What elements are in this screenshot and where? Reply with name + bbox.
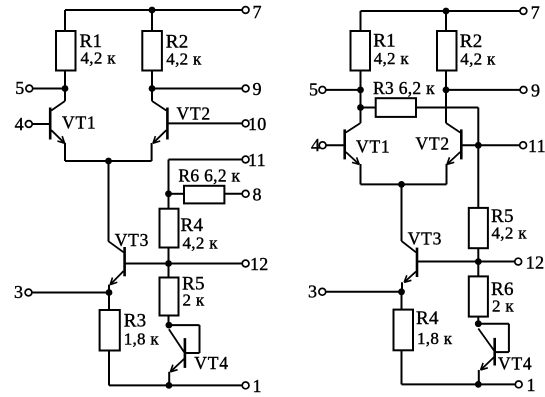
wire: R1 to VT1 collector node [64,71,66,102]
junction: R5/R6/VT3 base/pin 12 (right) [475,258,482,265]
transistor VT3 (right) [402,241,418,282]
svg-text:9: 9 [531,80,540,100]
svg-text:VT2: VT2 [416,134,450,154]
junction: left top rail / R2 [149,7,156,14]
transistor VT1 (right) [345,123,361,164]
resistor R3 (left) body [100,310,120,351]
svg-text:11: 11 [248,150,266,170]
pin 3 terminal (left) [25,289,32,296]
svg-text:1,8 к: 1,8 к [417,329,453,348]
wire: left top rail to pin 7 [65,9,243,11]
wire: VT3 emitter stub (right) [401,282,403,292]
junction: VT1/VT2 emitters common node (right) [398,181,405,188]
wire: rail to R1 (right) [360,11,362,31]
junction: R5 / VT4 collector+base [166,322,173,329]
resistor R3 (right) body [376,98,416,117]
svg-text:2 к: 2 к [183,291,205,310]
svg-text:4,2 к: 4,2 к [460,50,496,69]
svg-text:1,8 к: 1,8 к [124,330,160,349]
svg-text:R6 6,2 к: R6 6,2 к [178,166,240,186]
wire: VT3 base to pin 12 (right) [418,261,515,263]
wire: R6 branch to pin 11 [169,159,243,161]
wire: R4 to R5 [168,248,170,278]
wire: rail to R2 [151,10,153,31]
transistor VT2 (right) [446,123,461,164]
wire: node to R4 (right) [401,292,403,310]
junction: R6 / VT4 collector+base (right) [475,320,482,327]
transistor VT3 (left) [109,241,125,284]
pin 8 terminal (left) [242,190,249,197]
resistor R2 (left) body [142,31,162,71]
pin 1 terminal (right) [515,381,522,388]
wire: R3 to VT2 base branch (crossover) [416,107,478,109]
wire: junction to R6 [169,193,185,195]
wire: VT2 emitter drop (right) [446,164,448,184]
wire: emitters node down to VT3 collector [108,161,110,242]
transistor VT4 (right) [478,329,494,371]
svg-text:1: 1 [527,375,536,395]
pin 3 terminal (right) [319,288,326,295]
svg-text:4,2 к: 4,2 к [374,49,410,68]
svg-text:VT4: VT4 [194,353,228,373]
pin 4 terminal (right) [319,142,326,149]
wire: VT4 base loop right [199,325,201,353]
wire: VT4 base loop bottom (right) [496,351,509,353]
svg-text:5: 5 [309,79,318,99]
wire: VT4 base loop top (right) [478,323,509,325]
wire: VT2 emitter to common node (right) [402,183,447,185]
svg-text:2 к: 2 к [492,297,514,316]
svg-text:3: 3 [308,281,317,301]
junction: right top rail / R2 [443,8,450,15]
wire: VT1 emitter to common node [65,160,109,162]
transistor VT4 (left) [169,329,185,372]
pin 5 terminal (right) [319,87,326,94]
wire: R6 to pin 8 [224,193,242,195]
svg-text:4: 4 [15,114,24,134]
svg-text:12: 12 [250,254,269,274]
wire: node to R3 [108,293,110,311]
wire: VT2 base to pin 11 (right) [462,144,520,146]
junction: bottom rail / VT4 emitter [166,382,173,389]
resistor R5 (left) body [160,278,179,316]
resistor R5 (right) body [469,208,488,248]
junction: R4/R5/VT3 base/pin 12 [165,260,172,267]
junction: R1 bottom / pin 5 / VT1 collector [62,85,69,92]
svg-text:VT2: VT2 [177,104,211,124]
wire: VT4 base loop right (right) [508,324,510,352]
svg-text:10: 10 [248,114,267,134]
wire: VT4 emitter to bottom rail [168,372,170,386]
wire: VT2 base to pin 10 [168,122,242,124]
svg-text:1: 1 [253,376,262,396]
resistor R4 (left) body [160,209,179,248]
wire: emitters node down to VT3 (right) [401,184,403,241]
resistor R6 (left) body [184,186,224,204]
pin 7 terminal (right) [520,8,527,15]
svg-text:3: 3 [14,282,23,302]
resistor R2 (right) body [437,31,457,71]
svg-text:R4: R4 [416,308,439,329]
junction: VT2 base / R3 / R5 branch (right) [475,142,482,149]
svg-text:VT4: VT4 [498,354,532,374]
svg-text:7: 7 [253,2,262,22]
pin 10 terminal (left) [242,120,249,127]
wire: VT1 emitter drop [64,143,66,161]
svg-text:VT3: VT3 [115,230,149,250]
svg-text:R3: R3 [124,311,147,332]
wire: VT4 base loop top [169,324,200,326]
svg-text:5: 5 [15,78,24,98]
svg-text:9: 9 [253,79,262,99]
svg-text:4,2 к: 4,2 к [81,49,117,68]
svg-text:7: 7 [531,3,540,23]
junction: R2 bottom / pin 9 / VT2 collector [149,85,156,92]
resistor R1 (right) body [351,31,371,71]
wire: rail to R2 (right) [445,11,447,31]
wire: R2 to VT2 collector node (right) [445,71,447,124]
pin 11 terminal (right) [520,142,527,149]
resistor R4 (right) body [394,310,414,351]
wire: VT3 base to junction and pin 12 [126,263,243,265]
junction: R3 left / R1 branch (right) [357,104,364,111]
resistor R6 (right) body [469,276,488,316]
transistor VT1 (left) [50,101,65,143]
wire: VT3 emitter stub [108,285,110,293]
wire: rail to R1 [64,10,66,31]
pin 4 terminal (left) [25,121,32,128]
junction: bottom rail / VT4 emitter (right) [475,381,482,388]
wire: pin 5 to R1 node (right) [326,89,361,91]
wire: R4 to bottom rail (right) [401,350,403,384]
wire: R2 to VT2 collector node [151,71,153,102]
junction: R1 bottom / pin 5 (right) [357,87,364,94]
pin 5 terminal (left) [26,85,33,92]
wire: pin 3 to VT3 emitter node (right) [326,291,402,293]
wire: left bottom rail to pin 1 [109,384,243,386]
wire: pin 4 to VT1 base (right) [326,144,344,146]
wire: right top rail to pin 7 [361,10,521,12]
svg-text:VT1: VT1 [62,112,96,132]
wire: R3 branch down to R5 (right) [477,108,479,208]
svg-text:VT3: VT3 [408,228,442,248]
svg-text:R3 6,2 к: R3 6,2 к [373,78,435,98]
wire: pin 4 to VT1 base [32,123,49,125]
wire: R6 to VT4 node (right) [477,317,479,324]
junction: VT1/VT2 emitters common node [105,158,112,165]
wire: pin 11 node down to R4 [168,160,170,209]
wire: R2 node to pin 9 [152,88,243,90]
junction: VT3 emitter / pin 3 / R3 [106,289,113,296]
svg-text:4,2 к: 4,2 к [492,224,528,243]
wire: VT2 emitter drop [151,143,153,161]
wire: right bottom rail to pin 1 [402,383,516,385]
wire: R5 to R6 (right) [477,248,479,276]
wire: R2 node to pin 9 (right) [446,89,520,91]
svg-text:11: 11 [528,136,545,156]
svg-text:8: 8 [253,184,262,204]
transistor VT2 (left) [152,101,167,143]
svg-text:4,2 к: 4,2 к [166,50,202,69]
resistor R1 (left) body [56,31,76,71]
svg-text:VT1: VT1 [356,136,390,156]
wire: VT1 emitter drop (right) [360,164,362,184]
wire: VT1 emitter to common node (right) [361,183,402,185]
junction: R6 left / R4 branch [165,190,172,197]
junction: VT3 emitter / pin 3 / R4 (right) [398,288,405,295]
junction: R2 bottom / pin 9 (right) [443,87,450,94]
svg-text:4,2 к: 4,2 к [183,234,219,253]
wire: R1 to VT1 collector node (right) [360,71,362,124]
wire: pin 5 to R1 node [33,88,65,90]
pin 9 terminal (left) [242,85,249,92]
wire: junction to R3 (right) [361,107,376,109]
wire: VT2 emitter to common node [109,160,152,162]
wire: pin 3 to VT3 emitter node [32,292,109,294]
svg-text:12: 12 [526,252,545,272]
wire: R3 to bottom rail [108,351,110,386]
pin 7 terminal (left) [242,7,249,14]
pin 12 terminal (left) [242,260,249,267]
pin 9 terminal (right) [520,87,527,94]
pin 12 terminal (right) [515,258,522,265]
pin 1 terminal (left) [242,382,249,389]
pin 11 terminal (left) [242,156,249,163]
wire: R5 to VT4 node [168,316,170,326]
wire: VT4 emitter to bottom rail (right) [478,370,480,384]
wire: VT4 base loop bottom [186,352,200,354]
